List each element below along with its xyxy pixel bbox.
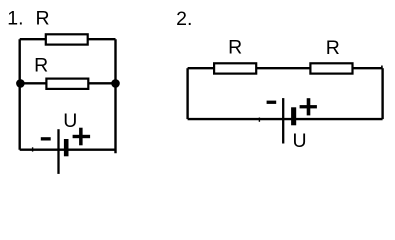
svg-text:R: R [34, 55, 48, 77]
svg-text:U: U [63, 110, 77, 132]
svg-text:R: R [228, 36, 242, 58]
svg-text:R: R [326, 37, 340, 59]
svg-text:U: U [293, 130, 307, 152]
svg-text:2.: 2. [176, 8, 192, 30]
svg-text:R: R [36, 8, 50, 30]
svg-text:1.: 1. [7, 8, 23, 30]
